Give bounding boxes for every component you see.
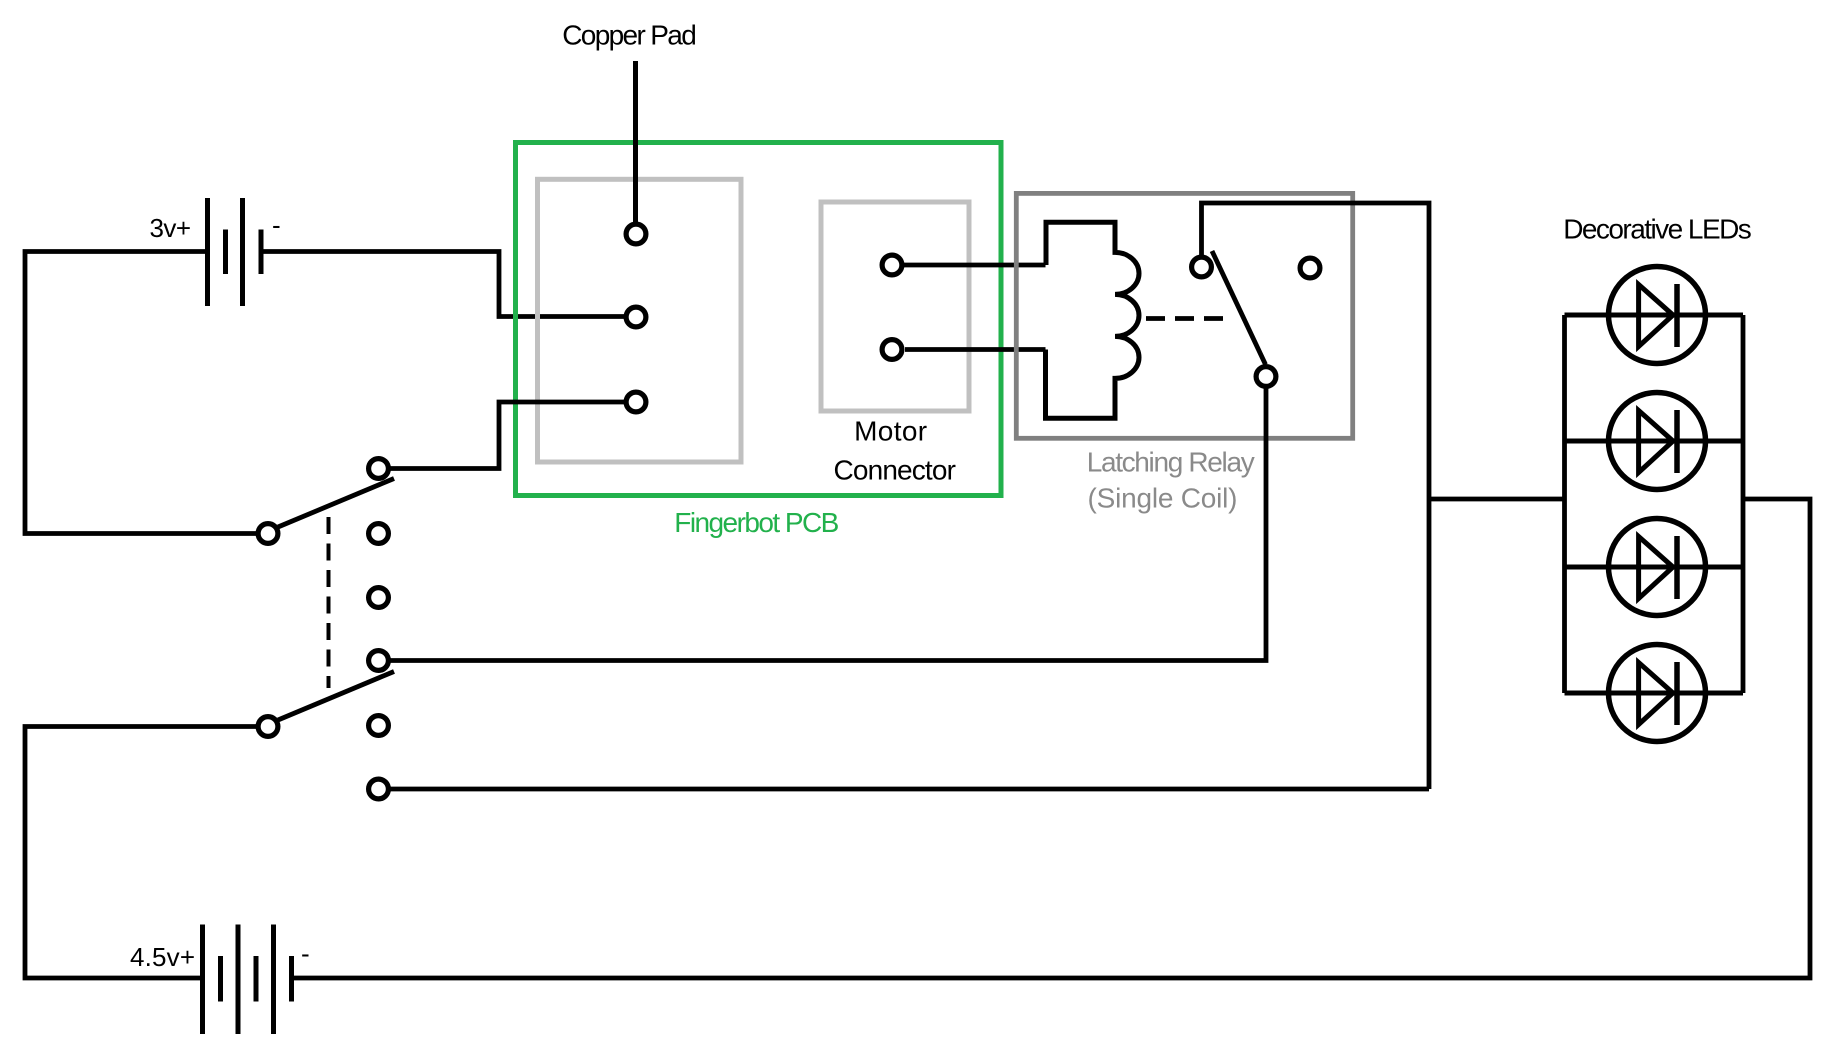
relay actuation dashed link: [1146, 316, 1227, 321]
relay switch blade: [1212, 251, 1266, 365]
LED D4: [1565, 645, 1744, 742]
wire motor pin1 to relay coil top: [904, 263, 1046, 268]
wire relay rail to LED anode rail: [1429, 497, 1565, 502]
svg-text:Latching Relay: Latching Relay: [1087, 447, 1255, 478]
switch S1 pole2 throw2: [369, 716, 389, 736]
LED cathode rail (right): [1741, 315, 1746, 693]
PCB terminal 3 (switch feed): [626, 392, 646, 412]
LED D2: [1565, 393, 1744, 490]
wire relay NO contact down to S1 pole2 throw1: [391, 389, 1267, 661]
LED D3: [1565, 519, 1744, 616]
LED D1: [1565, 267, 1744, 364]
svg-text:Fingerbot PCB: Fingerbot PCB: [674, 507, 839, 538]
Motor Connector box (gray): [821, 202, 969, 411]
wire B1 positive to S1 pole1 common (left loop): [25, 252, 256, 534]
Fingerbot PCB outline (green box): [516, 143, 1002, 496]
wire motor pin2 to relay coil bottom: [905, 347, 1046, 352]
wire relay common up and right to LED feed rail: [1202, 203, 1430, 789]
svg-text:-: -: [272, 210, 281, 240]
svg-text:Connector: Connector: [834, 455, 956, 486]
svg-text:-: -: [301, 939, 310, 969]
switch S1 pole2 blade: [278, 672, 394, 721]
svg-text:Decorative LEDs: Decorative LEDs: [1563, 213, 1752, 244]
relay NO contact: [1256, 367, 1276, 387]
pad connector box (gray): [538, 179, 742, 462]
wire LED cathode rail to B2 negative: [292, 499, 1811, 978]
svg-text:3v+: 3v+: [150, 213, 192, 243]
wire S1 pole2 common to B2 positive: [25, 727, 256, 979]
PCB terminal 2 (battery minus): [626, 307, 646, 327]
switch S1 gang dashed link: [327, 517, 331, 688]
Latching Relay box (dark gray): [1016, 193, 1352, 438]
switch S1 pole1 throw2: [369, 524, 389, 544]
battery B2 (4.5v): [203, 925, 292, 1035]
wire S1 pole2 throw3 to LED feed vertical: [391, 787, 1430, 792]
svg-text:(Single Coil): (Single Coil): [1088, 482, 1238, 513]
wire B1 negative to PCB middle terminal: [261, 252, 624, 317]
motor connector pin 2: [882, 340, 902, 360]
motor connector pin 1: [882, 255, 902, 275]
switch S1 pole2 common: [258, 717, 278, 737]
switch S1 pole1 common: [258, 524, 278, 544]
svg-text:Motor: Motor: [854, 416, 927, 447]
relay NC contact (unused): [1300, 258, 1320, 278]
switch S1 pole1 blade: [278, 479, 394, 528]
switch S1 pole2 throw3: [369, 779, 389, 799]
LED anode rail (left): [1562, 315, 1567, 693]
svg-text:Copper Pad: Copper Pad: [562, 19, 697, 50]
battery B1 (3v): [208, 198, 262, 306]
wire copper pad to PCB top terminal: [633, 61, 638, 222]
switch S1 pole1 throw1: [369, 459, 389, 479]
relay coil K1: [1046, 222, 1140, 418]
wire PCB terminal 3 to S1 pole1 throw1: [391, 402, 625, 469]
switch S1 pole1 throw3: [369, 588, 389, 608]
switch S1 pole2 throw1: [369, 651, 389, 671]
PCB terminal 1 (copper pad): [626, 224, 646, 244]
svg-text:4.5v+: 4.5v+: [130, 942, 195, 972]
relay common contact: [1192, 257, 1212, 277]
